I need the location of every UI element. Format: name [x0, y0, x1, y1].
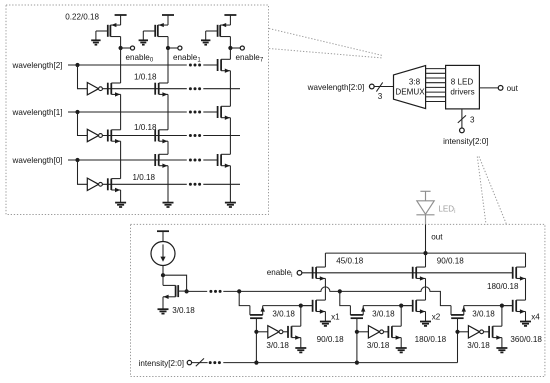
wire wavelength[0] line: [68, 159, 187, 161]
ground at gate of MP3: [201, 31, 218, 45]
svg-text:3/0.18: 3/0.18: [272, 309, 295, 318]
wire column 1 stack verticals: [120, 48, 122, 203]
nmos MM-x2 mirror (180/0.18): [413, 300, 426, 322]
svg-text:wavelength[0]: wavelength[0]: [12, 156, 63, 165]
svg-text:90/0.18: 90/0.18: [317, 335, 345, 344]
svg-text:x1: x1: [331, 313, 340, 322]
nmos MB1 bias diode (3/0.18), mirrored: [163, 275, 187, 309]
svg-text:90/0.18: 90/0.18: [437, 257, 465, 266]
nmos ME-x2 enable cascode (90/0.18): [413, 253, 426, 281]
ground at MB1 source: [158, 308, 169, 310]
junction inverter input tap x4: [455, 330, 459, 334]
svg-text:3/0.18: 3/0.18: [266, 341, 289, 350]
ellipsis on wavelength[2] line: [189, 64, 192, 67]
bus-width slash intensity: [458, 115, 466, 123]
ellipsis on inverted[1] line: [189, 134, 192, 137]
nmos MN11 (1/0.18) column 1 row 1: [108, 83, 121, 97]
dashed detail box: 3:8 DEMUX decoder schematic: [6, 5, 269, 215]
zoom connector line from intensity to driver box (right): [479, 157, 507, 225]
dashed detail box: LED driver cell schematic: [131, 224, 545, 376]
wire inverter x4 output to pulldown gate: [484, 331, 490, 333]
wire inverted[1] line: [102, 135, 187, 137]
VDD supply bar column 3: [224, 14, 236, 16]
junction bias feed x2: [338, 289, 342, 293]
junction mirror gate node x2: [399, 304, 403, 308]
wire switch x2 to mirror gate: [363, 305, 413, 307]
ellipsis on wavelength[1] line: [189, 111, 192, 114]
terminal intensity (driver): [187, 360, 191, 364]
nmos MD-x1 pulldown (3/0.18): [288, 306, 301, 348]
ground at gate of MP2: [139, 31, 156, 45]
junction bias drain node: [161, 273, 165, 277]
wire out node vertical from LED: [425, 224, 427, 253]
wire wavelength[1] line: [68, 111, 187, 113]
wire enable line: [302, 272, 514, 274]
nmos ME-x4 enable cascode (180/0.18): [513, 253, 526, 281]
zoom connector line from decoder box to DEMUX (upper): [269, 29, 383, 56]
wire to enable terminal 1: [121, 47, 131, 49]
inverter INV-x4: [468, 326, 479, 338]
svg-text:wavelength[2]: wavelength[2]: [12, 61, 63, 70]
svg-text:360/0.18: 360/0.18: [510, 335, 542, 344]
ellipsis on inverted[0] line: [189, 183, 192, 186]
wire column 2 stack verticals: [167, 48, 169, 203]
nmos MN23 (1/0.18) column 2 row 3: [155, 154, 168, 168]
junction out rail / LED: [423, 251, 427, 255]
nmos MS-x4 switch (3/0.18) horizontal: [451, 306, 466, 319]
ellipsis on intensity bus: [209, 361, 212, 364]
node enable junction column 1: [119, 46, 123, 50]
svg-text:intensity[2:0]: intensity[2:0]: [443, 137, 488, 146]
pmos pull-up MP2 (0.22/0.18): [155, 15, 168, 37]
svg-text:drivers: drivers: [450, 87, 474, 96]
block U1 3:8 DEMUX: [394, 66, 426, 109]
ground at pulldown x2: [396, 347, 407, 349]
terminal enable column 1: [130, 46, 134, 50]
wire switch gate x1 control vertical: [255, 318, 257, 362]
wire wavelength[2] to inverter input: [78, 65, 88, 89]
svg-text:45/0.18: 45/0.18: [336, 257, 364, 266]
nmos MN32 (1/0.18) column 3 row 2: [218, 106, 231, 120]
ground at pulldown x4: [496, 347, 507, 349]
wire out rail: [325, 252, 525, 254]
svg-text:out: out: [431, 233, 443, 242]
svg-text:3:8: 3:8: [409, 77, 421, 86]
inverter INV3 for wavelength[0]: [87, 178, 98, 190]
junction bias gate node: [185, 289, 189, 293]
nmos MN13 (1/0.18) column 1 row 3: [108, 178, 121, 192]
nmos MD-x2 pulldown (3/0.18): [388, 306, 401, 348]
svg-text:180/0.18: 180/0.18: [487, 282, 519, 291]
svg-text:wavelength[1]: wavelength[1]: [12, 108, 63, 117]
junction wavelength[1] to inverter: [75, 110, 79, 114]
pmos pull-up MP3 (0.22/0.18): [218, 15, 231, 37]
VDD supply bar at current source: [157, 230, 169, 232]
wire wavelength[0] to inverter input: [78, 160, 88, 184]
terminal wavelength[2:0]: [369, 84, 374, 89]
wire diode connection (drain to gate): [163, 275, 187, 291]
wire switch gate x4 control vertical: [457, 318, 459, 362]
inverter INV1 for wavelength[2]: [87, 83, 98, 95]
wire to inverter x2: [357, 331, 369, 333]
current source I1: [151, 231, 175, 275]
wire ME-x1 source down to mirror drain: [324, 278, 326, 300]
wire ME-x4 source down to mirror drain: [525, 278, 527, 300]
wire bias feed to switch x1: [239, 291, 250, 305]
junction wavelength[2] to inverter: [75, 63, 79, 67]
terminal intensity[2:0]: [460, 128, 465, 133]
wire: MP3 drain to enable node: [229, 37, 231, 48]
svg-text:intensity[2:0]: intensity[2:0]: [139, 359, 184, 368]
svg-text:3/0.18: 3/0.18: [472, 309, 495, 318]
ground column 3 stack: [225, 202, 236, 204]
VDD supply bar column 2: [162, 14, 174, 16]
wire inverter x1 output to pulldown gate: [283, 331, 288, 333]
terminal out: [498, 86, 503, 91]
bus-width slash intensity (driver): [196, 358, 204, 366]
VDD supply bar at LED anode (gray): [420, 190, 430, 192]
svg-text:3/0.18: 3/0.18: [467, 341, 490, 350]
ground column 1 stack: [115, 202, 126, 204]
wire intensity bus to drivers: [461, 109, 463, 128]
svg-text:wavelength[2:0]: wavelength[2:0]: [307, 83, 365, 92]
pmos pull-up MP1 (0.22/0.18): [108, 15, 121, 37]
junction inverter input tap x2: [355, 330, 359, 334]
ellipsis on wavelength[0] line: [189, 159, 192, 162]
wire drivers to out terminal: [479, 87, 498, 89]
block U2 8 LED drivers: [446, 65, 480, 109]
junction control line tap x2: [355, 361, 359, 365]
junction wavelength[0] to inverter: [75, 158, 79, 162]
wire wavelength[2] line: [68, 64, 187, 66]
inverter INV2 for wavelength[1]: [87, 129, 98, 141]
ground at gate of MP1: [91, 31, 108, 45]
nmos MN22 (1/0.18) column 2 row 2: [155, 130, 168, 144]
svg-text:1/0.18: 1/0.18: [134, 72, 157, 81]
terminal enable column 2: [178, 46, 182, 50]
nmos MM-x4 mirror (360/0.18): [513, 300, 526, 322]
wire bias line with hops: [187, 287, 451, 306]
wire to inverter x4: [458, 331, 469, 333]
VDD supply bar column 1: [115, 14, 127, 16]
svg-text:3: 3: [378, 92, 383, 101]
nmos MN31 (1/0.18) column 3 row 1: [218, 59, 231, 73]
ground at pulldown x1: [295, 347, 306, 349]
zoom connector line from intensity to driver box (left): [477, 157, 486, 225]
ground column 2 stack: [163, 202, 174, 204]
svg-text:x4: x4: [531, 313, 540, 322]
nmos MN33 (1/0.18) column 3 row 3: [218, 154, 231, 168]
junction mirror gate node x4: [500, 304, 504, 308]
LED Di diode symbol (gray): [416, 191, 434, 224]
junction bias feed x1: [237, 289, 241, 293]
svg-text:x2: x2: [432, 313, 441, 322]
wire to enable terminal 2: [168, 47, 178, 49]
wires: 8 DEMUX outputs to LED drivers: [426, 69, 446, 102]
svg-text:LEDi: LEDi: [438, 204, 455, 215]
wire bias feed to switch x2: [340, 291, 351, 305]
svg-text:8 LED: 8 LED: [451, 77, 474, 86]
terminal enable_i: [297, 270, 302, 275]
svg-text:1/0.18: 1/0.18: [134, 123, 157, 132]
svg-text:1/0.18: 1/0.18: [133, 173, 156, 182]
inverter INV-x2: [368, 326, 379, 338]
nmos MS-x2 switch (3/0.18) horizontal: [350, 306, 365, 319]
nmos MS-x1 switch (3/0.18) horizontal: [250, 306, 265, 319]
wire wavelength bus to DEMUX: [374, 86, 393, 88]
wire switch gate x2 control vertical: [356, 318, 358, 362]
wire ME-x2 source down to mirror drain: [425, 278, 427, 300]
svg-text:0.22/0.18: 0.22/0.18: [65, 13, 99, 22]
svg-text:3/0.18: 3/0.18: [367, 341, 390, 350]
ground at mirror x2: [420, 321, 431, 323]
nmos MD-x4 pulldown (3/0.18): [489, 306, 502, 348]
svg-text:3/0.18: 3/0.18: [372, 309, 395, 318]
wire inverted[2] line: [102, 88, 187, 90]
node enable junction column 2: [166, 46, 170, 50]
ellipsis on bias line: [209, 290, 212, 293]
wire: MP2 drain to enable node: [167, 37, 169, 48]
wire switch x1 to mirror gate: [263, 305, 314, 307]
wire inverted[0] line: [102, 183, 187, 185]
node enable junction column 3: [228, 46, 232, 50]
wire intensity control bus: [192, 362, 458, 364]
svg-text:3/0.18: 3/0.18: [172, 306, 195, 315]
nmos MN21 (1/0.18) column 2 row 1: [155, 83, 168, 97]
nmos MN12 (1/0.18) column 1 row 2: [108, 130, 121, 144]
wire inverter x2 output to pulldown gate: [384, 331, 389, 333]
svg-text:180/0.18: 180/0.18: [415, 335, 447, 344]
wire column 3 stack verticals: [229, 48, 231, 203]
ground at mirror x4: [520, 321, 531, 323]
terminal enable column 3: [240, 46, 244, 50]
junction mirror gate node x1: [299, 304, 303, 308]
inverter INV-x1: [268, 326, 279, 338]
svg-text:out: out: [507, 84, 519, 93]
nmos MM-x1 mirror (90/0.18): [313, 300, 326, 322]
wire: MP1 drain to enable node: [120, 37, 122, 48]
ground at mirror x1: [320, 321, 331, 323]
wire mirror gate lead x2: [401, 305, 413, 307]
wire to enable terminal 3: [230, 47, 240, 49]
wire switch x4 to mirror gate: [464, 305, 514, 307]
nmos ME-x1 enable cascode (45/0.18): [313, 253, 326, 281]
bus-width slash wavelength: [376, 82, 382, 91]
svg-text:3: 3: [470, 116, 475, 125]
wire mirror gate lead x4: [502, 305, 513, 307]
zoom connector line from decoder box to DEMUX (lower): [269, 49, 383, 59]
junction inverter input tap x1: [254, 330, 258, 334]
wire mirror gate lead x1: [301, 305, 313, 307]
junction control line tap x1: [254, 361, 258, 365]
wire wavelength[1] to inverter input: [78, 112, 88, 136]
wire to inverter x1: [256, 331, 267, 333]
ellipsis on inverted[2] line: [189, 87, 192, 90]
svg-text:DEMUX: DEMUX: [395, 87, 425, 96]
